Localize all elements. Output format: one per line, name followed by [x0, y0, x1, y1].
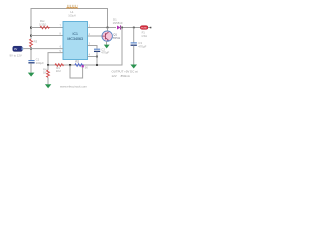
wire FB node to R4 [47, 65, 49, 70]
capacitor C1 plates [28, 60, 34, 62]
node switch junction [107, 27, 109, 29]
resistor Rsc [40, 26, 49, 29]
svg-text:1N5819: 1N5819 [113, 21, 123, 25]
svg-text:MC34063: MC34063 [67, 37, 83, 41]
node C3 junction [133, 27, 135, 29]
svg-text:TIP41: TIP41 [113, 36, 121, 40]
ground divider [45, 84, 51, 88]
resistor R2 [75, 64, 84, 67]
resistor R1 [55, 64, 64, 67]
node junction Vin/pin8 wire [30, 35, 32, 37]
node junction FB/R divider [47, 64, 49, 66]
node output junction [121, 27, 123, 29]
svg-text:12V 850mA: 12V 850mA [112, 74, 130, 78]
svg-text:1K: 1K [43, 71, 46, 75]
wire emitter [106, 41, 108, 44]
wire C2 lower stub [96, 52, 98, 57]
wire IC pin2 to base [88, 35, 103, 37]
svg-text:100µF: 100µF [36, 61, 44, 65]
svg-text:100µH: 100µH [68, 14, 76, 17]
node gnd/C2 junction [96, 56, 98, 58]
wire collector [107, 28, 109, 31]
wire C1 to ground [30, 63, 32, 72]
diode D1 [117, 25, 121, 29]
wire IC pin1 to switch node [88, 27, 117, 29]
wire D1 to output [121, 27, 140, 29]
fuse F1 [140, 26, 148, 30]
capacitor C2 plates [94, 48, 100, 50]
battery BT1 9V [13, 46, 23, 51]
capacitor C3 plates [131, 42, 137, 44]
wire IC pin3 to C2 [88, 46, 98, 49]
svg-text:470pF: 470pF [101, 51, 109, 55]
svg-text:R3: R3 [34, 39, 38, 43]
wire C3 to ground [133, 46, 135, 65]
wire battery to rail [23, 48, 31, 50]
wire IC gnd pin 4 [88, 56, 98, 58]
svg-text:1K2: 1K2 [56, 69, 61, 73]
wire feedback rail [48, 64, 122, 66]
wire Rsc row to IC pin 7 [31, 27, 63, 29]
wire Vcc pin 6 from battery rail [31, 48, 63, 50]
wire pin 8 drive row [31, 35, 63, 37]
node rail/C2 junction [96, 64, 98, 66]
node junction Vin/Rsc [30, 27, 32, 29]
wire FB pin 5 stub [48, 53, 63, 65]
inductor L1 core dashes [67, 5, 78, 6]
wire output down to rail [121, 28, 123, 66]
wire Vin vertical rail [30, 9, 32, 40]
svg-text:9V to 12V: 9V to 12V [10, 53, 22, 57]
inductor L1 coil [67, 7, 78, 8]
op-amp IC1 MC34063 body [63, 22, 88, 60]
ground input [28, 73, 35, 77]
svg-text:Rsc: Rsc [40, 19, 45, 23]
wire C3 drop [133, 28, 135, 43]
node output terminal [150, 27, 152, 29]
node FB magenta [82, 65, 84, 67]
node battery junction [30, 48, 32, 50]
resistor R4 vertical [47, 70, 50, 77]
svg-text:OUTPUT +5V DC at: OUTPUT +5V DC at [112, 70, 138, 74]
wire top rail from Vin to switch node [31, 9, 108, 28]
svg-text:9V: 9V [14, 47, 17, 51]
svg-text:0.33Ω: 0.33Ω [39, 22, 46, 26]
resistor R3 vertical [30, 39, 33, 47]
ground output cap [130, 65, 137, 69]
transistor Q1 [102, 31, 112, 41]
wire R3 to battery node [30, 47, 32, 60]
svg-text:IC1: IC1 [73, 32, 78, 36]
svg-text:1.5A: 1.5A [141, 34, 147, 38]
svg-text:FUSE: FUSE [141, 27, 147, 29]
ground emitter [104, 45, 110, 49]
wire R4 to ground [47, 77, 49, 84]
svg-text:470µF: 470µF [138, 44, 146, 48]
node junction R1/R2 [69, 64, 71, 66]
wire C2 bottom to rail [96, 57, 98, 66]
svg-text:3K: 3K [85, 66, 89, 70]
wire feedback loop [70, 65, 83, 78]
svg-text:R2: R2 [75, 59, 79, 63]
svg-text:www.eleccircuit.com: www.eleccircuit.com [60, 85, 88, 89]
wire fuse output lead [148, 27, 151, 29]
